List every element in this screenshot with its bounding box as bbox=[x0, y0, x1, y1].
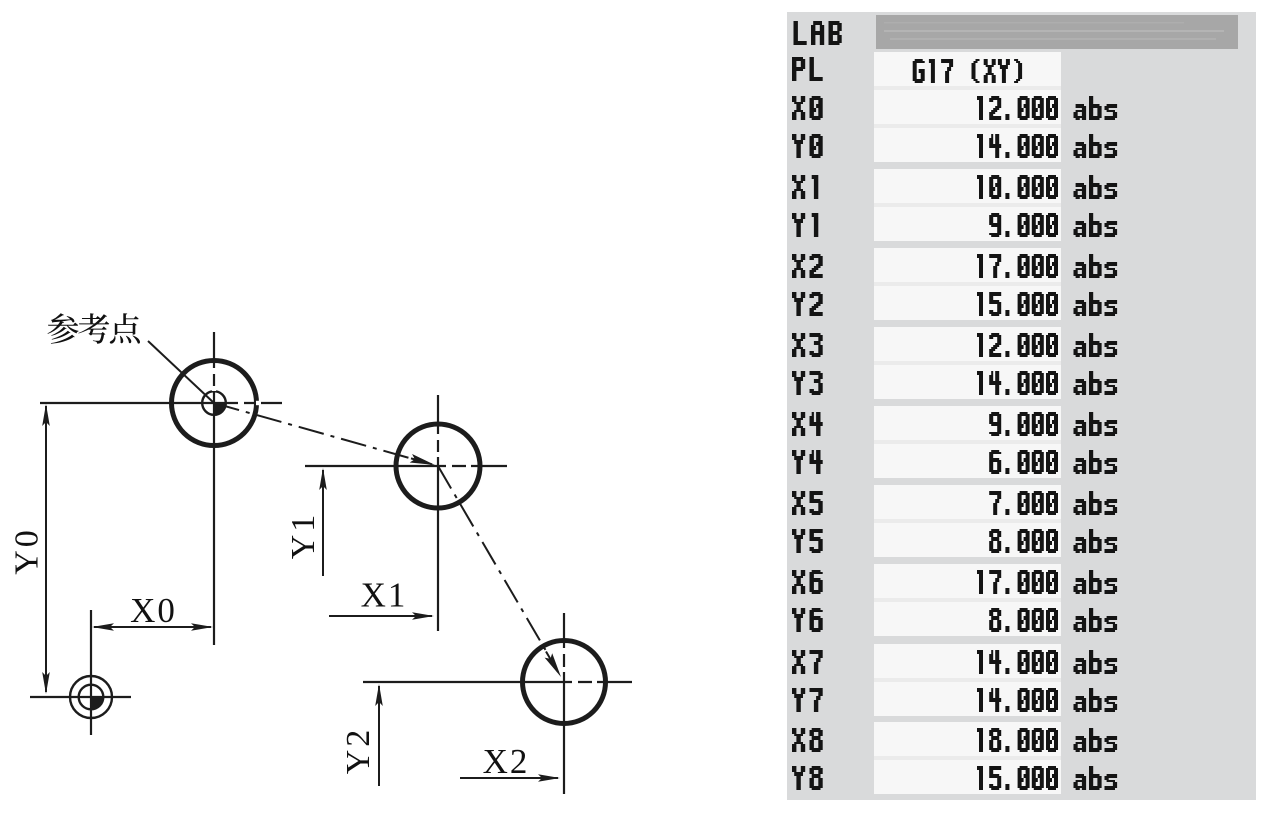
unit abs X1 bbox=[1074, 175, 1118, 199]
unit abs X6 bbox=[1074, 570, 1118, 594]
LAB input bar bbox=[876, 15, 1238, 49]
value field Y6 bbox=[874, 602, 1061, 636]
hole 2 centerline horizontal bbox=[305, 465, 507, 467]
label X2 bbox=[792, 254, 823, 278]
unit abs X5 bbox=[1074, 491, 1118, 515]
value 9.000 bbox=[989, 412, 1058, 436]
value field X4 bbox=[874, 406, 1061, 440]
light dividers within pairs bbox=[874, 86, 1061, 760]
hole 1 centerline vertical bbox=[213, 332, 215, 645]
value 8.000 bbox=[989, 608, 1058, 632]
svg-text:Y0: Y0 bbox=[9, 527, 46, 575]
value 10.000 bbox=[977, 175, 1058, 199]
label Y2 bbox=[792, 292, 823, 316]
value field Y7 bbox=[874, 682, 1061, 716]
tool path arrow at hole 3 bbox=[545, 653, 561, 677]
value 6.000 bbox=[989, 450, 1058, 474]
value 8.000 bbox=[989, 529, 1058, 553]
label X1 bbox=[792, 175, 818, 199]
value 12.000 bbox=[977, 96, 1058, 120]
hole 3 centerline vertical bbox=[563, 613, 565, 794]
label X6 bbox=[792, 570, 823, 594]
unit abs X0 bbox=[1074, 96, 1118, 120]
value 14.000 bbox=[977, 650, 1058, 674]
unit abs Y8 bbox=[1074, 766, 1118, 790]
hole 1 centerline horizontal bbox=[40, 402, 282, 404]
value field X7 bbox=[874, 644, 1061, 678]
dimension line Y2 bbox=[378, 686, 380, 786]
value G17 (XY) bbox=[913, 59, 1022, 83]
tool path hole2 to hole3 (dash-dot) bbox=[438, 466, 549, 656]
value field Y4 bbox=[874, 444, 1061, 478]
value field Y3 bbox=[874, 365, 1061, 399]
value 15.000 bbox=[977, 292, 1058, 316]
value 17.000 bbox=[977, 254, 1058, 278]
svg-text:Y2: Y2 bbox=[340, 727, 377, 775]
value 17.000 bbox=[977, 570, 1058, 594]
label Y8 bbox=[792, 766, 823, 790]
reference point filled quadrant bbox=[214, 403, 226, 415]
hole 3 circle bbox=[523, 641, 606, 724]
label Y7 bbox=[792, 688, 823, 712]
label Y6 bbox=[792, 608, 823, 632]
tool path hole1 to hole2 (dash-dot) bbox=[214, 403, 414, 459]
label X3 bbox=[792, 333, 823, 357]
value field X8 bbox=[874, 722, 1061, 756]
value field Y1 bbox=[874, 207, 1061, 241]
value field X1 bbox=[874, 169, 1061, 203]
unit abs X8 bbox=[1074, 728, 1118, 752]
label X7 bbox=[792, 650, 823, 674]
value 9.000 bbox=[989, 213, 1058, 237]
reference point inner circle bbox=[202, 391, 226, 415]
unit abs Y5 bbox=[1074, 529, 1118, 553]
label Y3 bbox=[792, 371, 823, 395]
origin outer circle bbox=[70, 676, 112, 718]
origin inner circle bbox=[79, 685, 104, 710]
label Y0 bbox=[792, 134, 823, 158]
hole 1 circle bbox=[172, 361, 257, 446]
unit abs Y0 bbox=[1074, 134, 1118, 158]
value field X2 bbox=[874, 248, 1061, 282]
label Y1 bbox=[792, 213, 818, 237]
panel background bbox=[787, 12, 1256, 800]
label LAB bbox=[794, 21, 842, 45]
label Y4 bbox=[792, 450, 823, 474]
label X8 bbox=[792, 728, 823, 752]
value field X3 bbox=[874, 327, 1061, 361]
PL value field bbox=[874, 52, 1061, 86]
unit abs Y2 bbox=[1074, 292, 1118, 316]
label X0 bbox=[792, 96, 823, 120]
leader line from label to reference point bbox=[148, 341, 214, 403]
hole 2 circle bbox=[396, 424, 480, 508]
value 14.000 bbox=[977, 134, 1058, 158]
unit abs Y6 bbox=[1074, 608, 1118, 632]
hole 3 centerline horizontal bbox=[363, 681, 632, 683]
tool path arrow at hole 2 bbox=[410, 454, 435, 465]
centerline gaps bbox=[212, 368, 597, 684]
value field Y5 bbox=[874, 523, 1061, 557]
svg-text:X2: X2 bbox=[483, 742, 530, 781]
value 7.000 bbox=[989, 491, 1058, 515]
hole 2 centerline vertical bbox=[437, 395, 439, 631]
unit abs X2 bbox=[1074, 254, 1118, 278]
unit abs Y1 bbox=[1074, 213, 1118, 237]
origin crosshair horizontal bbox=[30, 696, 131, 698]
value field Y2 bbox=[874, 286, 1061, 320]
label Y5 bbox=[792, 529, 823, 553]
dimension line Y0 bbox=[45, 406, 47, 692]
origin crosshair vertical bbox=[90, 610, 92, 735]
value 18.000 bbox=[977, 728, 1058, 752]
dimension line X0 bbox=[94, 626, 211, 628]
dimension line X2 bbox=[460, 777, 558, 779]
svg-text:X1: X1 bbox=[361, 576, 408, 615]
unit abs Y4 bbox=[1074, 450, 1118, 474]
dimension line X1 bbox=[329, 615, 432, 617]
value field Y0 bbox=[874, 128, 1061, 162]
value 12.000 bbox=[977, 333, 1058, 357]
label X4 bbox=[792, 412, 823, 436]
value field X5 bbox=[874, 485, 1061, 519]
unit abs X7 bbox=[1074, 650, 1118, 674]
value 14.000 bbox=[977, 371, 1058, 395]
svg-text:Y1: Y1 bbox=[285, 512, 322, 560]
label X5 bbox=[792, 491, 823, 515]
unit abs X3 bbox=[1074, 333, 1118, 357]
value 15.000 bbox=[977, 766, 1058, 790]
origin filled quadrant bbox=[91, 697, 103, 709]
value field X0 bbox=[874, 90, 1061, 124]
unit abs Y3 bbox=[1074, 371, 1118, 395]
unit abs X4 bbox=[1074, 412, 1118, 436]
svg-text:X0: X0 bbox=[130, 591, 177, 630]
value 14.000 bbox=[977, 688, 1058, 712]
label PL bbox=[792, 57, 823, 81]
value field Y8 bbox=[874, 760, 1061, 794]
unit abs Y7 bbox=[1074, 688, 1118, 712]
value field X6 bbox=[874, 564, 1061, 598]
dimension line Y1 bbox=[322, 470, 324, 576]
text label 参考点 (reference point) bbox=[48, 313, 140, 344]
